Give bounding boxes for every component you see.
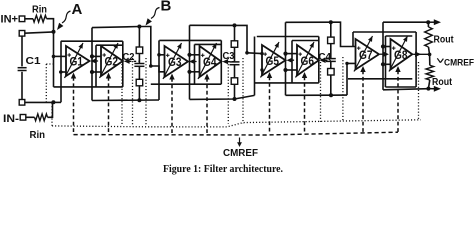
stage2 upper input junction: [157, 53, 161, 57]
stage 1 upper input tap: [90, 54, 101, 58]
op-amp G8: [389, 36, 412, 72]
stage 4 lower input tap: [381, 62, 391, 66]
output- junction: [426, 87, 430, 91]
stage3 lower input junction: [260, 68, 263, 71]
op-amp G5: [261, 42, 286, 78]
pad above capacitor C2: [136, 47, 143, 54]
svg-text:IN+: IN+: [1, 13, 19, 25]
stage 4 upper input tap: [381, 44, 391, 48]
stage 1 loop left side: [60, 41, 62, 102]
dashed link G4 output to C3 branch: [222, 59, 234, 64]
C4 top junction: [329, 20, 333, 24]
svg-text:Rin: Rin: [30, 129, 46, 141]
stage 1 inner loop left: [95, 45, 97, 87]
stage 2 feedback loop top: [159, 39, 221, 41]
bottom rail stage3 to stage4 riser: [286, 94, 348, 96]
stage4 lower input junction: [345, 62, 348, 65]
dashed link G1 to G2: [91, 58, 102, 63]
C2 bottom junction: [137, 98, 141, 102]
terminal pad above IN-: [19, 100, 25, 106]
op-amp G3: [163, 43, 188, 79]
stage 2 loop left side: [158, 40, 160, 100]
stage 3 loop right side: [318, 37, 320, 83]
svg-text:C2: C2: [123, 51, 135, 63]
node B junction: [137, 25, 141, 29]
top rail stage4 to output: [383, 21, 428, 23]
stage 2 upper input tap: [187, 53, 199, 57]
svg-text:G1: G1: [70, 55, 84, 69]
stage 2 lower input tap: [187, 70, 199, 74]
capacitor C1 upper wire: [21, 36, 23, 66]
node A junction: [52, 30, 56, 34]
bottom input node junction: [51, 100, 55, 104]
tuning control arrow into G1: [71, 73, 76, 135]
stage 3 inner loop left: [291, 41, 293, 83]
stage 2 loop right side: [220, 40, 222, 84]
resistor Rin (top): [33, 15, 47, 22]
G1 + input stub: [52, 55, 66, 59]
stage 4 inner loop link: [384, 79, 386, 87]
stage 2 mid node column: [189, 25, 191, 99]
stage 3 loop left side: [254, 37, 256, 96]
svg-text:G5: G5: [266, 54, 280, 68]
svg-text:Rin: Rin: [32, 3, 47, 15]
svg-text:B: B: [161, 0, 172, 14]
capacitor C3: [230, 62, 240, 65]
node A column down to G1 + input and loop bottom: [53, 32, 55, 87]
dotted CM riser at x=243.0: [242, 58, 244, 123]
stage 4 loop bottom: [348, 78, 412, 80]
stage 3 feedback loop top: [257, 36, 319, 38]
svg-text:C3: C3: [223, 50, 235, 62]
tuning control arrow into G8: [395, 66, 400, 132]
label B: [161, 0, 172, 14]
dashed control bus: [74, 132, 399, 135]
tuning control arrow into G4: [204, 74, 209, 134]
Rin label (bottom): [30, 129, 46, 141]
stage 2 loop bottom: [151, 83, 222, 85]
wire Rin up to bottom node: [48, 102, 53, 117]
top rail stage3 to C4: [286, 21, 331, 23]
op-amp G6: [296, 42, 319, 78]
svg-text:G2: G2: [105, 55, 119, 69]
top rail stage2 to C3: [190, 24, 235, 26]
pad below capacitor C3: [231, 78, 238, 85]
stage 4 outer loop bottom: [385, 86, 416, 88]
svg-text:C1: C1: [26, 55, 41, 67]
dotted CM riser left: [45, 64, 47, 103]
bottom rail stage2 to stage3: [190, 95, 255, 99]
C4 label: [319, 51, 332, 63]
svg-text:A: A: [72, 1, 83, 18]
coupling branch C3 wire: [234, 25, 236, 99]
svg-text:CMREF: CMREF: [223, 147, 259, 159]
svg-text:G8: G8: [394, 48, 408, 62]
IN+ terminal pad: [19, 16, 25, 22]
dotted CM riser at x=320.5: [320, 62, 322, 122]
wire pad to node A: [25, 32, 54, 33]
stage 1 inner loop top: [96, 44, 123, 46]
op-amp G4: [198, 43, 221, 79]
C3 top junction: [233, 23, 237, 27]
IN- input label: [3, 113, 19, 125]
leader arrow B: [146, 8, 160, 26]
op-amp G1: [65, 43, 90, 78]
dotted riser below IN- node: [51, 103, 53, 126]
svg-text:IN-: IN-: [3, 113, 19, 125]
tuning control arrow into G5: [267, 72, 272, 133]
coupling branch C4 wire: [330, 22, 332, 95]
svg-text:G3: G3: [168, 55, 182, 69]
dashed link G7 to G8: [380, 52, 389, 57]
wire C4 node to stage4 upper input: [331, 22, 356, 46]
dotted CM riser at x=342.9: [342, 57, 344, 122]
pad below capacitor C2: [136, 79, 143, 86]
stage 4 outer loop right side: [415, 32, 417, 87]
terminal pad below IN+: [19, 31, 25, 37]
wire Rout to output- node: [428, 80, 429, 89]
stage 3 upper input tap: [283, 52, 297, 56]
dashed link G3 to G4: [189, 59, 200, 64]
Rin label (top): [32, 3, 47, 15]
stage 3 loop bottom: [255, 82, 319, 84]
resistor Rout (top): [425, 27, 433, 47]
top rail stage1 to node B: [92, 27, 139, 28]
C4 bottom junction: [329, 93, 333, 97]
dashed link G5 to G6: [287, 58, 298, 63]
resistor Rin (bottom): [35, 114, 48, 121]
dotted CM riser at x=228.3: [227, 58, 229, 124]
wire pad to bottom node: [25, 101, 54, 103]
stage 3 mid node column: [285, 22, 287, 95]
C3 bottom junction: [233, 97, 237, 101]
op-amp G7: [354, 36, 379, 72]
svg-text:Rout: Rout: [432, 76, 452, 88]
stage2 upper input stub: [159, 54, 165, 56]
output+ arrow: [428, 19, 441, 25]
output- arrow: [428, 86, 441, 92]
riser bottom node to G1 - input: [53, 101, 61, 103]
stage 2 inner loop left: [194, 44, 196, 84]
stage 1 feedback loop top: [61, 40, 123, 42]
G1 - input stub: [61, 71, 66, 73]
dotted CM riser at x=132.5: [132, 58, 134, 126]
stage3 upper input junction: [245, 51, 249, 55]
wire IN- pad to Rin: [26, 116, 35, 118]
stage 1 lower input tap: [90, 70, 101, 74]
dashed link G6 output to C4 branch: [320, 58, 331, 63]
stage4 lower input riser: [347, 63, 356, 95]
dotted CM riser right: [418, 62, 420, 120]
stage 4 outer loop top: [353, 31, 416, 33]
CMREF label (bottom): [223, 147, 259, 159]
stage 1 mid node column: [91, 28, 93, 101]
svg-text:G7: G7: [359, 48, 373, 62]
capacitor C4: [326, 59, 336, 62]
stage3 upper input stub: [247, 52, 264, 55]
op-amp G2: [100, 43, 123, 78]
svg-text:G4: G4: [203, 55, 217, 69]
tuning control arrow into G6: [302, 72, 307, 133]
stage4 bottom rail: [383, 89, 428, 90]
pad above capacitor C3: [231, 41, 238, 48]
wire C3 node to stage3 input: [235, 25, 248, 52]
stage 2 inner loop top: [195, 43, 222, 45]
stage2 lower input link: [151, 66, 165, 72]
dotted CM bus: [52, 120, 421, 127]
dotted CM riser at x=122.0: [121, 64, 123, 126]
C1 label: [26, 55, 41, 67]
Rout label (bottom): [432, 76, 452, 88]
tuning control arrow into G7: [360, 66, 365, 133]
label A: [72, 1, 83, 18]
link G8 output to Rout column: [413, 52, 429, 57]
CMREF label (right): [444, 58, 474, 69]
capacitor C1: [18, 68, 27, 71]
svg-text:Rout: Rout: [434, 34, 454, 46]
dashed link G2 output to C2 branch: [124, 59, 140, 64]
IN+ input label: [1, 13, 19, 25]
C3 label: [223, 50, 235, 62]
wire IN+ pad to Rin: [25, 18, 33, 20]
leader arrow A: [57, 11, 71, 30]
dotted CM riser at x=146.0: [145, 58, 147, 125]
pad above capacitor C4: [328, 37, 335, 44]
stage 4 mid node column: [382, 22, 384, 90]
stage 3 lower input tap: [283, 68, 297, 72]
stage 4 inner loop left: [385, 36, 387, 79]
output+ junction: [426, 20, 430, 24]
pad below capacitor C4: [328, 69, 335, 76]
tuning control arrow into G3: [169, 74, 174, 135]
resistor Rout (bottom): [426, 65, 434, 80]
wire node B to stage2 input column: [139, 27, 150, 67]
Rout label (top): [434, 34, 454, 46]
tuning control arrow into G2: [106, 73, 111, 135]
svg-text:C4: C4: [319, 51, 332, 63]
dotted CM stub left: [46, 63, 53, 65]
CMREF arrow (bottom): [237, 138, 242, 148]
svg-text:CMREF: CMREF: [444, 58, 474, 69]
wire between Rout resistors: [428, 47, 432, 65]
stage 4 inner loop top: [386, 35, 413, 37]
wire output+ node down to Rout: [427, 22, 429, 27]
bottom rail stage1 to stage2: [92, 99, 159, 102]
stage2 input link junction: [149, 64, 153, 68]
capacitor C1 lower wire: [21, 72, 23, 100]
CMREF arrow (right): [437, 58, 443, 62]
capacitor C2: [134, 64, 144, 67]
wire Rin to node A: [47, 19, 54, 32]
G1 - input junction: [59, 70, 63, 74]
figure caption: [163, 164, 283, 175]
IN- terminal pad: [20, 115, 26, 121]
stage 4 loop left side: [352, 32, 354, 47]
stage 1 loop right side: [122, 41, 124, 87]
coupling branch C2 wire: [138, 27, 140, 101]
stage 1 loop bottom: [54, 86, 123, 88]
stage 3 inner loop top: [292, 40, 319, 42]
svg-text:G6: G6: [301, 54, 315, 68]
C2 label: [123, 51, 135, 63]
svg-text:Figure 1: Filter architecture: Figure 1: Filter architecture.: [163, 164, 283, 175]
